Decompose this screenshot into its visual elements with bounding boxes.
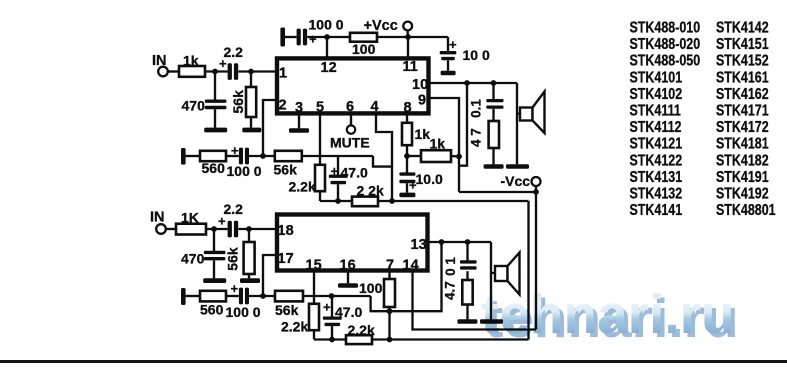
svg-text:STK4151: STK4151: [716, 36, 769, 54]
svg-text:100: 100: [352, 41, 376, 57]
svg-text:1: 1: [279, 66, 287, 82]
svg-text:4.7: 4.7: [443, 281, 458, 300]
svg-text:STK4122: STK4122: [630, 152, 683, 170]
svg-text:47.0: 47.0: [335, 304, 362, 320]
svg-text:STK4111: STK4111: [630, 102, 681, 120]
svg-text:STK4181: STK4181: [716, 135, 769, 153]
svg-text:0.1: 0.1: [469, 99, 484, 118]
svg-text:100 0: 100 0: [227, 163, 262, 179]
svg-text:10: 10: [412, 77, 428, 93]
svg-text:56k: 56k: [230, 90, 246, 114]
svg-text:+: +: [231, 143, 239, 158]
svg-text:2: 2: [279, 98, 287, 114]
svg-text:+: +: [309, 32, 317, 47]
svg-text:STK4152: STK4152: [716, 52, 769, 70]
svg-text:STK4131: STK4131: [630, 169, 683, 187]
svg-text:560: 560: [200, 302, 224, 318]
svg-text:56k: 56k: [274, 162, 298, 178]
svg-text:+: +: [231, 281, 239, 296]
svg-text:14: 14: [403, 258, 419, 274]
svg-text:18: 18: [278, 223, 294, 239]
svg-text:STK48801: STK48801: [716, 202, 776, 220]
svg-text:10 0: 10 0: [463, 47, 490, 63]
svg-text:3: 3: [295, 100, 303, 116]
svg-text:9: 9: [418, 93, 426, 109]
svg-text:STK4171: STK4171: [716, 102, 769, 120]
svg-text:IN: IN: [150, 210, 165, 226]
svg-text:12: 12: [321, 60, 337, 76]
svg-text:17: 17: [278, 251, 294, 267]
svg-text:47.0: 47.0: [341, 165, 368, 181]
svg-text:2.2k: 2.2k: [281, 319, 308, 335]
svg-text:STK4112: STK4112: [630, 119, 682, 137]
svg-text:STK4102: STK4102: [630, 86, 683, 104]
svg-text:100 0: 100 0: [226, 304, 261, 320]
svg-text:STK488-050: STK488-050: [630, 52, 701, 70]
svg-text:1k: 1k: [183, 53, 199, 69]
svg-text:2.2k: 2.2k: [348, 322, 375, 338]
svg-text:1K: 1K: [181, 210, 199, 226]
svg-text:STK4121: STK4121: [630, 135, 683, 153]
svg-text:STK4182: STK4182: [716, 152, 769, 170]
svg-text:1k: 1k: [430, 136, 446, 152]
svg-text:STK4172: STK4172: [716, 119, 769, 137]
svg-text:7: 7: [386, 258, 394, 274]
svg-text:15: 15: [306, 258, 322, 274]
svg-text:4 7: 4 7: [469, 128, 484, 147]
svg-text:470: 470: [181, 251, 205, 267]
svg-text:STK488-020: STK488-020: [630, 36, 701, 54]
svg-text:STK4191: STK4191: [716, 169, 769, 187]
svg-text:560: 560: [202, 160, 226, 176]
svg-text:11: 11: [403, 59, 418, 75]
svg-text:13: 13: [411, 237, 427, 253]
svg-text:STK488-010: STK488-010: [630, 19, 701, 37]
svg-text:0 1: 0 1: [443, 257, 458, 276]
svg-text:-Vcc: -Vcc: [501, 173, 531, 189]
svg-text:+: +: [449, 37, 457, 52]
svg-text:STK4162: STK4162: [716, 86, 769, 104]
svg-text:2 2k: 2 2k: [357, 183, 384, 199]
svg-text:100: 100: [359, 280, 383, 296]
svg-text:STK4132: STK4132: [630, 185, 683, 203]
svg-text:16: 16: [340, 258, 356, 274]
svg-text:STK4192: STK4192: [716, 185, 769, 203]
svg-text:+Vcc: +Vcc: [364, 18, 398, 34]
svg-text:MUTE: MUTE: [330, 135, 370, 151]
svg-text:STK4142: STK4142: [716, 19, 769, 37]
svg-text:56k: 56k: [225, 247, 241, 271]
svg-text:8: 8: [404, 100, 412, 116]
svg-text:STK4141: STK4141: [630, 202, 683, 220]
svg-text:STK4101: STK4101: [630, 69, 683, 87]
svg-text:2.2: 2.2: [224, 44, 244, 60]
svg-text:56k: 56k: [275, 302, 299, 318]
svg-text:100 0: 100 0: [309, 17, 344, 33]
svg-text:1k: 1k: [415, 126, 431, 142]
svg-text:10.0: 10.0: [416, 171, 443, 187]
svg-text:470: 470: [182, 98, 206, 114]
svg-text:5: 5: [316, 100, 324, 116]
svg-text:4: 4: [371, 99, 379, 115]
svg-text:IN: IN: [152, 53, 167, 69]
svg-text:STK4161: STK4161: [716, 69, 769, 87]
svg-text:2.2k: 2.2k: [289, 179, 316, 195]
svg-text:2.2: 2.2: [224, 201, 244, 217]
svg-text:6: 6: [346, 99, 354, 115]
svg-text:+: +: [323, 300, 331, 315]
